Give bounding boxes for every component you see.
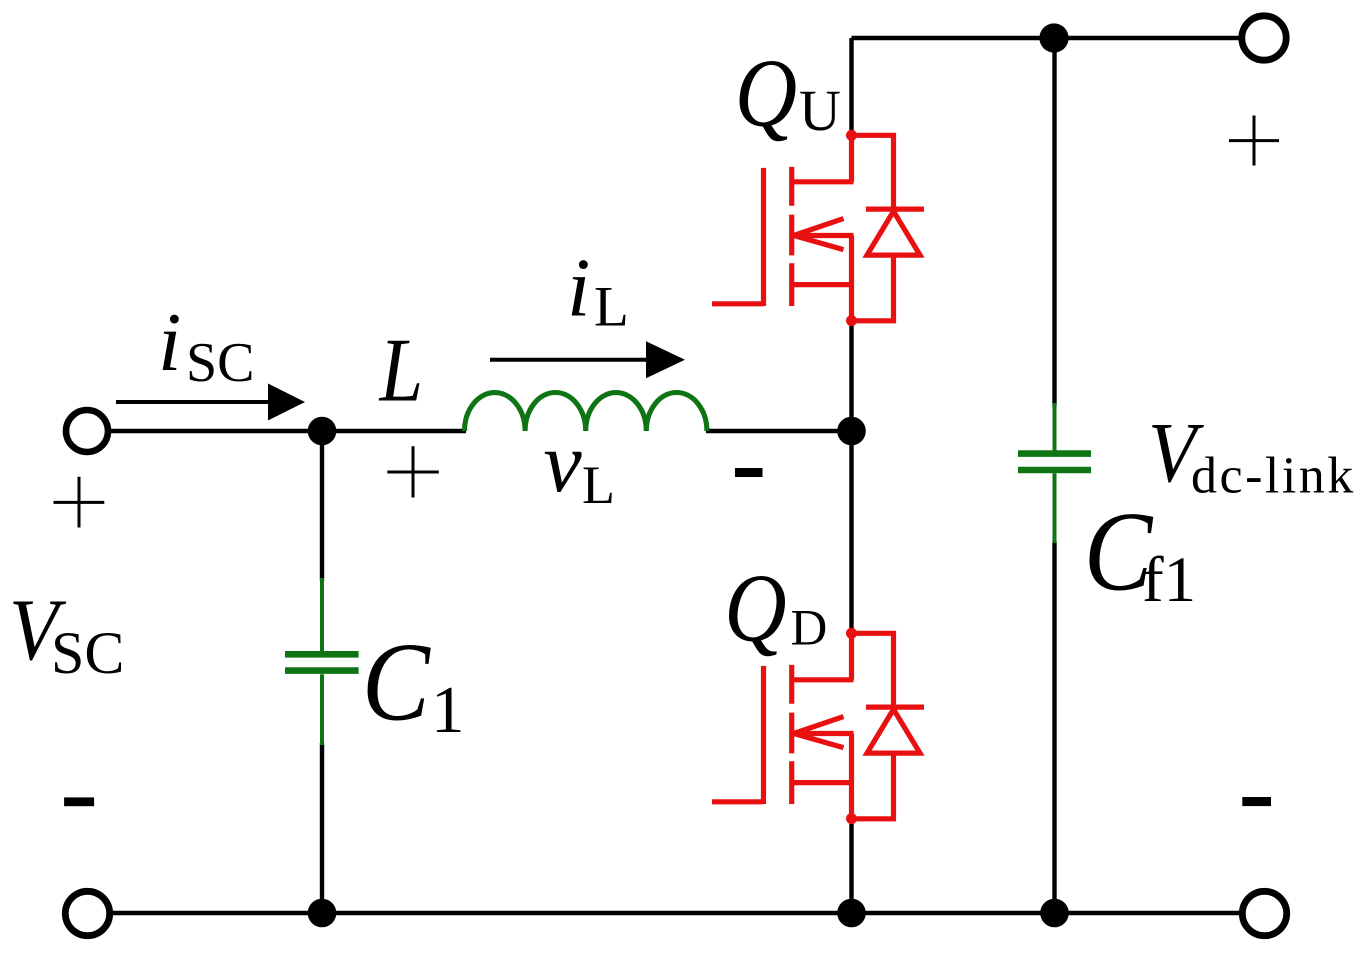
wire QU source to QD drain — [849, 321, 853, 632]
bottom junction dot C1 — [308, 899, 337, 928]
node A junction dot — [308, 417, 337, 446]
label iL — [567, 242, 629, 339]
inductor L — [465, 392, 707, 431]
top rail junction dot — [1039, 23, 1068, 52]
terminal top-right — [1242, 16, 1286, 60]
transistor QD (MOSFET with body diode) — [712, 628, 924, 824]
svg-text:SC: SC — [186, 332, 255, 394]
minus sign vL — [735, 468, 763, 477]
wire inductor to node B — [706, 429, 852, 433]
wire top rail — [852, 36, 1241, 40]
wire top rail down to Cfl — [1052, 38, 1056, 406]
svg-text:L: L — [594, 276, 629, 339]
arrow iSC — [116, 384, 305, 421]
svg-text:Q: Q — [735, 39, 797, 147]
terminal bottom-right — [1242, 891, 1286, 935]
plus sign vL — [387, 446, 439, 497]
terminal top-left — [66, 410, 108, 452]
arrow iL — [490, 341, 685, 378]
terminal bottom-left — [65, 891, 109, 935]
plus sign VSC — [54, 477, 105, 528]
label QD — [724, 554, 827, 662]
label QU — [735, 39, 841, 147]
wire node A to inductor — [322, 429, 466, 433]
svg-text:C: C — [362, 621, 431, 744]
svg-text:Q: Q — [724, 554, 786, 662]
svg-text:v: v — [544, 414, 583, 510]
bottom junction dot half-bridge — [837, 899, 866, 928]
capacitor C1 — [285, 578, 359, 745]
node B junction dot — [837, 417, 866, 446]
bottom junction dot Cfl — [1040, 899, 1069, 928]
svg-text:U: U — [799, 78, 841, 143]
plus sign Vdc-link — [1229, 116, 1279, 166]
svg-text:D: D — [791, 601, 828, 657]
wire Cfl to bottom rail — [1052, 541, 1056, 913]
label VSC — [9, 582, 124, 686]
wire node A down to C1 — [320, 431, 324, 581]
svg-text:SC: SC — [51, 620, 124, 686]
svg-text:i: i — [567, 242, 590, 335]
minus sign VSC — [64, 797, 94, 806]
wire C1 to bottom rail — [320, 743, 324, 913]
svg-text:L: L — [582, 455, 615, 515]
minus sign Vdc-link — [1242, 797, 1271, 806]
transistor QU (MOSFET with body diode) — [712, 130, 924, 326]
label Vdc-link — [1148, 404, 1356, 505]
svg-text:dc-link: dc-link — [1191, 448, 1356, 505]
wire top rail to QU drain — [849, 38, 853, 133]
label C1 — [362, 621, 465, 747]
svg-text:L: L — [379, 320, 423, 421]
label Cfl — [1084, 490, 1196, 616]
capacitor Cfl — [1018, 403, 1091, 543]
label iSC — [158, 296, 255, 394]
label vL — [544, 414, 616, 515]
wire left input to node A — [108, 429, 322, 433]
wire bottom rail — [111, 911, 1240, 915]
wire QD source to bottom rail — [849, 820, 853, 913]
svg-text:i: i — [158, 296, 181, 389]
svg-text:1: 1 — [431, 673, 465, 747]
svg-text:f1: f1 — [1142, 544, 1196, 616]
